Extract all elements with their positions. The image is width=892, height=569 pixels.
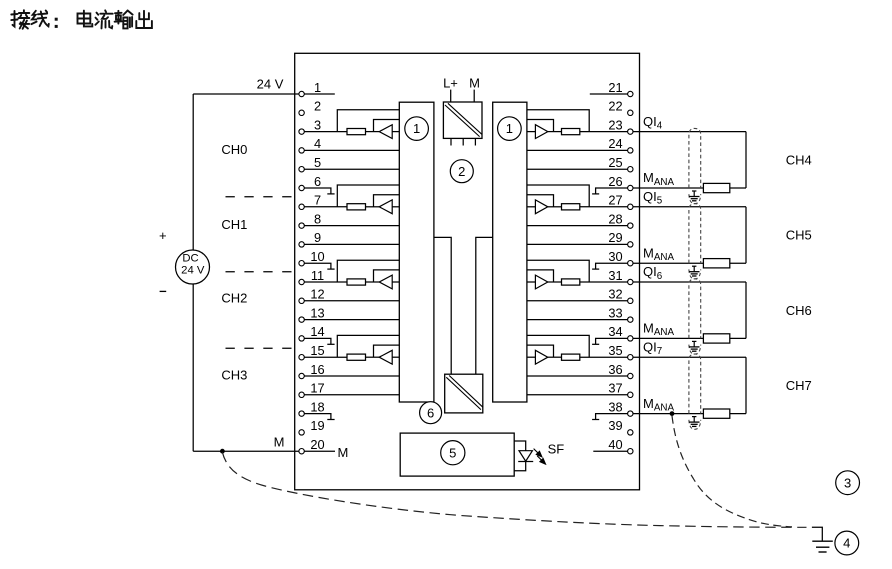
terminal 11: [299, 268, 324, 285]
svg-text:25: 25: [608, 155, 622, 170]
shield cable CH6 (dashed capsule): [689, 279, 701, 339]
wire terminal 1 stub: [304, 93, 335, 95]
wire CH3 sense feedback outer: [337, 335, 399, 357]
wire load CH6 right edge: [745, 282, 747, 338]
svg-text:30: 30: [608, 249, 622, 264]
resistor load CH7: [703, 409, 729, 418]
wire terminal 30 MANA hook: [596, 263, 628, 269]
terminal 18: [299, 399, 325, 416]
op-amp CH5 output buffer (triangle): [535, 200, 547, 214]
terminal 15: [299, 343, 325, 360]
svg-text:11: 11: [311, 268, 324, 283]
svg-text:M: M: [274, 434, 285, 449]
wire DC- vertical: [192, 284, 194, 451]
terminal 5: [299, 155, 321, 172]
terminal 40: [608, 437, 633, 454]
svg-text:CH2: CH2: [221, 290, 247, 305]
wire terminal 7 output: [304, 206, 347, 208]
wire terminal 26 MANA hook: [596, 188, 628, 194]
svg-text:18: 18: [310, 399, 324, 414]
wire CH2 sense feedback inner: [374, 270, 400, 282]
svg-text:28: 28: [608, 211, 622, 226]
wire MANA from terminal 26: [633, 187, 703, 189]
svg-text:12: 12: [310, 287, 324, 302]
resistor CH0 output: [347, 129, 366, 135]
shield cable CH7 (dashed capsule): [689, 354, 701, 414]
svg-text:DC: DC: [182, 253, 198, 265]
wire CH2 sense feedback outer: [337, 260, 399, 282]
wire terminal 15 output: [304, 356, 347, 358]
earth ground (system): [812, 527, 822, 541]
shield cable CH5 (dashed capsule): [689, 204, 701, 264]
terminal 30: [608, 249, 633, 266]
svg-text:38: 38: [608, 399, 622, 414]
wire: [392, 281, 399, 283]
wire 24V from DC+ to terminal 1: [193, 93, 299, 95]
resistor CH2 output: [347, 279, 366, 285]
svg-text:7: 7: [314, 193, 321, 208]
wire terminal 8 to output bar: [304, 225, 399, 227]
svg-text:35: 35: [608, 343, 622, 358]
terminal 16: [299, 362, 325, 379]
title colon: [55, 18, 58, 21]
svg-text:26: 26: [608, 174, 622, 189]
terminal 22: [608, 99, 633, 116]
ground shield CH7: [689, 417, 700, 427]
op-amp CH2 DAC buffer (triangle): [379, 275, 392, 289]
svg-text:CH0: CH0: [221, 142, 247, 157]
wire load CH5 right edge: [745, 207, 747, 263]
wire LED bracket: [514, 441, 526, 471]
LED arrows: [534, 449, 546, 465]
shield cable CH4 (dashed capsule): [689, 128, 701, 188]
svg-text:2: 2: [458, 164, 465, 179]
node MANA junction dot CH7: [670, 411, 675, 416]
wire bar to amp: [527, 281, 536, 283]
svg-text:10: 10: [310, 249, 324, 264]
svg-text:23: 23: [608, 117, 622, 132]
wire terminal 34 MANA hook: [596, 338, 628, 344]
op-amp CH3 DAC buffer (triangle): [379, 350, 392, 364]
terminal 25: [608, 155, 633, 172]
wire to terminal 23: [580, 131, 628, 133]
wire to terminal 35: [580, 356, 628, 358]
svg-text:37: 37: [608, 381, 622, 396]
wire QI7 from terminal 35 to load: [633, 356, 746, 358]
svg-text:+: +: [159, 228, 167, 243]
svg-text:27: 27: [608, 193, 622, 208]
wire QI4 from terminal 23 to load: [633, 131, 746, 133]
svg-text:13: 13: [310, 305, 324, 320]
circled 3: [836, 471, 860, 495]
wire: [366, 206, 380, 208]
svg-text:39: 39: [608, 418, 622, 433]
wire CH4 sense feedback inner: [527, 120, 554, 132]
terminal 4: [299, 136, 321, 153]
terminal 6: [299, 174, 321, 191]
wire: [392, 206, 399, 208]
svg-text:M: M: [338, 445, 349, 460]
dashed channel separator: [226, 196, 295, 198]
wire terminal 11 output: [304, 281, 347, 283]
svg-text:24 V: 24 V: [181, 264, 205, 276]
wire terminal 38 MANA hook: [596, 414, 628, 420]
terminal 39: [608, 418, 633, 435]
circled 6: [420, 402, 442, 424]
svg-text:1: 1: [506, 121, 513, 136]
svg-text:22: 22: [608, 99, 622, 114]
wire bar to amp: [527, 206, 536, 208]
terminal 33: [608, 305, 633, 322]
svg-text:CH4: CH4: [786, 153, 812, 168]
wire terminal 17 to output bar: [304, 394, 399, 396]
wire: [548, 281, 562, 283]
svg-text:36: 36: [608, 362, 622, 377]
terminal 36: [608, 362, 633, 379]
resistor CH7 output: [562, 354, 580, 360]
title glyph 出: [136, 11, 152, 28]
svg-text:8: 8: [314, 211, 321, 226]
wire CH0 sense feedback outer: [337, 110, 399, 132]
wire: [366, 131, 380, 133]
svg-text:31: 31: [608, 268, 622, 283]
title glyph 流: [95, 10, 112, 28]
wire terminal 32 from output bar: [527, 300, 628, 302]
resistor CH6 output: [562, 279, 580, 285]
svg-text:6: 6: [427, 405, 434, 420]
wire left bar to isolation: [434, 237, 451, 374]
svg-text:CH3: CH3: [221, 367, 247, 382]
svg-text:33: 33: [608, 305, 622, 320]
wire dashed MANA equipotential to earth: [672, 416, 792, 527]
ground shield CH4: [689, 191, 700, 201]
terminal 19: [299, 418, 325, 435]
wire M from DC- to terminal 20: [193, 450, 299, 452]
svg-text:CH7: CH7: [786, 378, 812, 393]
terminal 35: [608, 343, 633, 360]
wire dashed M equipotential to earth: [222, 452, 806, 527]
wire CH7 sense feedback inner: [527, 345, 554, 357]
op-amp CH6 output buffer (triangle): [535, 275, 547, 289]
svg-text:24: 24: [608, 136, 622, 151]
wire terminal 20 to M stub: [304, 450, 335, 452]
wire bar to amp: [527, 356, 536, 358]
wire: [548, 131, 562, 133]
node M junction dot: [220, 449, 225, 454]
dashed channel separator: [226, 271, 295, 273]
wire terminal 16 to output bar: [304, 375, 399, 377]
svg-text:2: 2: [314, 99, 321, 114]
circled 1 right: [498, 117, 522, 141]
title glyph 输: [115, 11, 133, 29]
wire MANA from terminal 38: [633, 413, 703, 415]
terminal 21: [608, 80, 633, 97]
wire terminal 9 to output bar: [304, 243, 399, 245]
wire converter stubs below: [450, 138, 452, 145]
terminal 27: [608, 193, 633, 210]
op-amp CH0 DAC buffer (triangle): [379, 125, 392, 139]
terminal 24: [608, 136, 633, 153]
wire load CH4 right edge: [745, 132, 747, 188]
wire terminal 4 to output bar: [304, 149, 399, 151]
wire MANA from terminal 34: [633, 337, 703, 339]
wire terminal 29 from output bar: [527, 243, 628, 245]
svg-text:15: 15: [310, 343, 324, 358]
wire terminal 28 from output bar: [527, 225, 628, 227]
wire terminal 5 to output bar: [304, 168, 399, 170]
svg-text:4: 4: [843, 536, 850, 551]
wire terminal 25 from output bar: [527, 168, 628, 170]
title glyph 电: [78, 11, 93, 27]
wire right bar to isolation: [476, 237, 493, 374]
circled 2: [450, 160, 473, 183]
svg-text:1: 1: [314, 80, 321, 95]
DC 24V source U1: [176, 250, 210, 284]
resistor load CH6: [703, 334, 729, 343]
wire M stub: [473, 90, 475, 102]
terminal 9: [299, 230, 321, 247]
wire DC+ vertical: [192, 94, 194, 250]
resistor CH3 output: [347, 354, 366, 360]
op-amp CH4 output buffer (triangle): [535, 125, 547, 139]
terminal 12: [299, 287, 325, 304]
wire: [730, 187, 746, 189]
svg-text:SF: SF: [548, 442, 565, 457]
terminal 38: [608, 399, 633, 416]
wire terminal 14 MANA hook: [304, 338, 331, 344]
wire CH1 sense feedback inner: [374, 195, 400, 207]
svg-text:19: 19: [310, 418, 324, 433]
op-amp CH7 output buffer (triangle): [535, 350, 547, 364]
svg-text:CH5: CH5: [786, 228, 812, 243]
resistor CH4 output: [562, 129, 580, 135]
ground shield CH6: [689, 341, 700, 351]
wire terminal 37 from output bar: [527, 394, 628, 396]
wire: [366, 281, 380, 283]
wire to terminal 31: [580, 281, 628, 283]
resistor CH1 output: [347, 204, 366, 210]
svg-text:16: 16: [310, 362, 324, 377]
circled 4: [835, 531, 859, 555]
wire: [730, 337, 746, 339]
label -: [160, 290, 167, 292]
svg-text:3: 3: [844, 475, 851, 490]
ground shield CH5: [689, 266, 700, 276]
svg-text:24 V: 24 V: [257, 77, 284, 92]
terminal 23: [608, 117, 633, 134]
terminal 29: [608, 230, 633, 247]
output stage bar right U3: [493, 102, 527, 402]
resistor load CH5: [703, 259, 729, 268]
wire terminal 24 from output bar: [527, 149, 628, 151]
terminal 17: [299, 381, 325, 398]
power converter U4 (upper): [443, 102, 482, 138]
wire terminal 21 stub: [590, 93, 628, 95]
svg-text:M: M: [469, 75, 480, 90]
wire: [392, 131, 399, 133]
wire CH6 sense feedback inner: [527, 270, 554, 282]
svg-text:17: 17: [310, 381, 324, 396]
wire terminal 18 MANA hook: [304, 414, 331, 420]
LED SF diode D1: [519, 451, 532, 462]
svg-text:32: 32: [608, 287, 622, 302]
op-amp CH1 DAC buffer (triangle): [379, 200, 392, 214]
terminal 34: [608, 324, 633, 341]
wire CH3 sense feedback inner: [374, 345, 400, 357]
logic box U6: [400, 433, 514, 476]
wire: [366, 356, 380, 358]
dashed channel separator: [226, 347, 295, 349]
svg-text:CH1: CH1: [221, 217, 247, 232]
module box (outline): [295, 53, 640, 490]
wire bar to amp: [527, 131, 536, 133]
terminal 7: [299, 193, 321, 210]
terminal 28: [608, 211, 633, 228]
svg-text:L+: L+: [443, 75, 458, 90]
wire terminal 3 output: [304, 131, 347, 133]
svg-text:34: 34: [608, 324, 622, 339]
wire terminal 33 from output bar: [527, 319, 628, 321]
terminal 1: [299, 80, 321, 97]
svg-text:9: 9: [314, 230, 321, 245]
wire QI6 from terminal 31 to load: [633, 281, 746, 283]
wire terminal 12 to output bar: [304, 300, 399, 302]
wire: [548, 356, 562, 358]
wire L+ stub: [450, 90, 452, 102]
circled 1 left: [405, 117, 429, 141]
wire terminal 10 MANA hook: [304, 263, 331, 269]
terminal 10: [299, 249, 325, 266]
terminal 2: [299, 99, 321, 116]
svg-text:4: 4: [314, 136, 321, 151]
svg-text:5: 5: [314, 155, 321, 170]
terminal 8: [299, 211, 321, 228]
wire: [548, 206, 562, 208]
terminal 37: [608, 381, 633, 398]
svg-text:40: 40: [608, 437, 622, 452]
title glyph 接: [11, 10, 29, 29]
power converter U5 (lower isolation): [445, 374, 483, 413]
terminal 14: [299, 324, 325, 341]
wire terminal 6 MANA hook: [304, 188, 331, 194]
svg-text:20: 20: [310, 437, 324, 452]
wire terminal 36 from output bar: [527, 375, 628, 377]
svg-text:21: 21: [608, 80, 622, 95]
wire: [730, 262, 746, 264]
wire: [392, 356, 399, 358]
wire CH1 sense feedback outer: [337, 185, 399, 207]
terminal 3: [299, 117, 321, 134]
wire load CH7 right edge: [745, 357, 747, 413]
wire CH5 sense feedback outer: [527, 185, 589, 207]
wire: [730, 413, 746, 415]
svg-text:1: 1: [413, 121, 420, 136]
svg-text:6: 6: [314, 174, 321, 189]
svg-text:5: 5: [449, 445, 456, 460]
output stage bar left U2: [399, 102, 434, 402]
terminal 31: [608, 268, 633, 285]
wire terminal 13 to output bar: [304, 319, 399, 321]
terminal 13: [299, 305, 325, 322]
wire MANA from terminal 30: [633, 262, 703, 264]
svg-text:3: 3: [314, 117, 321, 132]
resistor load CH4: [703, 183, 729, 192]
wire to terminal 27: [580, 206, 628, 208]
wire CH0 sense feedback inner: [374, 120, 400, 132]
circled 5: [441, 441, 465, 465]
svg-text:14: 14: [310, 324, 324, 339]
terminal 20: [299, 437, 325, 454]
title glyph 线: [31, 11, 48, 27]
wire CH7 sense feedback outer: [527, 335, 589, 357]
wire QI5 from terminal 27 to load: [633, 206, 746, 208]
wire CH4 sense feedback outer: [527, 110, 589, 132]
resistor CH5 output: [562, 204, 580, 210]
svg-text:29: 29: [608, 230, 622, 245]
terminal 26: [608, 174, 633, 191]
wire CH6 sense feedback outer: [527, 260, 589, 282]
terminal 32: [608, 287, 633, 304]
wire terminal 40 stub: [593, 450, 627, 452]
wire CH5 sense feedback inner: [527, 195, 554, 207]
svg-text:CH6: CH6: [786, 303, 812, 318]
